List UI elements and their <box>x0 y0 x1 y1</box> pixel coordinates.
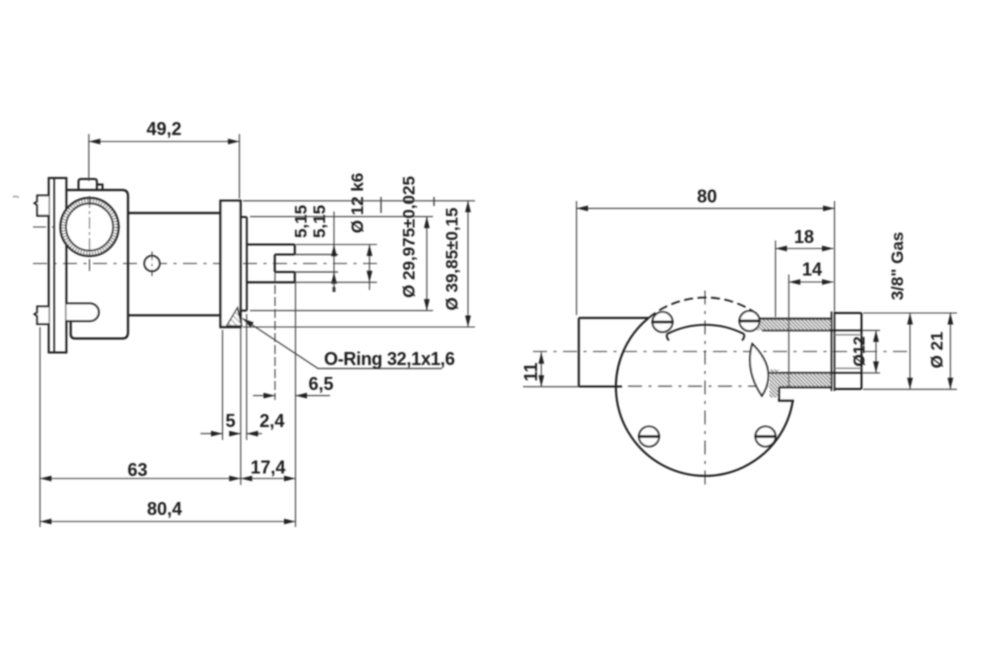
dimension Ø21 <box>949 313 951 389</box>
dimension 5 <box>201 330 241 440</box>
dimension 63 <box>40 327 241 527</box>
svg-text:6,5: 6,5 <box>308 374 333 394</box>
lower left tab <box>35 307 49 325</box>
foot slot in body <box>66 304 98 322</box>
flange horizontal centerline <box>598 385 812 387</box>
stub thread minor lines <box>835 334 862 336</box>
body behind flange <box>579 318 648 387</box>
screw TL <box>652 312 674 332</box>
svg-text:Ø12: Ø12 <box>852 336 869 366</box>
drive shaft <box>247 245 295 283</box>
extension tick A <box>380 197 382 213</box>
flange disc hidden top arc (dashed) <box>648 298 756 319</box>
screw BR <box>755 427 777 447</box>
port bore bottom line <box>764 372 862 374</box>
middle cylinder section <box>128 213 221 315</box>
dimension Ø12 k6 <box>296 245 377 291</box>
flange disc circle <box>616 318 793 476</box>
port top hatched wall <box>757 319 832 331</box>
upper left tab <box>35 196 49 216</box>
port bottom hatched wall <box>770 373 832 387</box>
cover circle outer <box>61 198 119 256</box>
svg-text:11: 11 <box>521 362 541 381</box>
flange vertical centerline <box>704 291 706 487</box>
shaft key <box>275 255 295 273</box>
port top outer line <box>759 318 833 320</box>
svg-text:49,2: 49,2 <box>146 119 181 139</box>
small hole vertical tick <box>151 252 153 277</box>
O-ring groove marker triangle <box>227 308 242 327</box>
svg-text:Ø 39,85±0,15: Ø 39,85±0,15 <box>443 208 462 311</box>
top lug on body <box>79 179 103 190</box>
svg-text:Ø 12 k6: Ø 12 k6 <box>348 173 367 234</box>
dimension 14 <box>789 275 834 388</box>
spigot (pilot) behind face <box>241 217 247 311</box>
svg-text:17,4: 17,4 <box>250 458 285 478</box>
dimension 2,4 <box>247 314 262 440</box>
svg-text:18: 18 <box>794 227 814 247</box>
port bottom outer line <box>779 386 832 388</box>
svg-text:3/8" Gas: 3/8" Gas <box>888 232 907 301</box>
screw BL <box>638 427 660 447</box>
dimension 17,4 <box>241 282 296 527</box>
pump body block <box>66 190 128 339</box>
dimension 80 <box>577 201 835 315</box>
intersection lens <box>750 344 768 396</box>
dimension 18 <box>776 241 834 318</box>
rear mounting plate <box>49 178 67 353</box>
svg-text:80,4: 80,4 <box>147 499 182 519</box>
svg-text:5: 5 <box>225 411 235 431</box>
port centerline <box>533 351 908 353</box>
port bore top line <box>762 329 862 331</box>
dimension Ø39,85 <box>243 201 475 327</box>
dimension 6,5 <box>253 273 330 400</box>
svg-text:5,15: 5,15 <box>292 205 311 238</box>
dimension 11 <box>523 352 580 386</box>
svg-text:63: 63 <box>127 460 147 480</box>
main horizontal centerline <box>33 263 380 265</box>
notch bottom step <box>779 387 794 401</box>
O-ring leader line <box>243 319 443 369</box>
flange right face lines <box>831 312 833 392</box>
svg-text:14: 14 <box>802 260 822 280</box>
dimension Ø12 port bore <box>862 330 880 373</box>
svg-text:80: 80 <box>697 187 717 207</box>
cover knurled ring <box>63 201 116 254</box>
svg-text:O-Ring 32,1x1,6: O-Ring 32,1x1,6 <box>324 349 455 369</box>
dimension 49,2 <box>89 134 240 199</box>
dimension 3/8 Gas <box>863 313 957 389</box>
front face flange plate <box>221 201 241 327</box>
boss arc <box>667 325 745 341</box>
svg-text:Ø 21: Ø 21 <box>928 332 947 369</box>
screw TR <box>739 311 761 331</box>
small hole in body <box>144 256 159 271</box>
threaded stub <box>835 313 862 389</box>
dimension 5,15 5,15 <box>333 212 335 293</box>
cover crosshair vertical <box>89 196 91 273</box>
svg-text:5,15: 5,15 <box>310 205 329 238</box>
extension tick B <box>433 197 435 206</box>
svg-text:Ø 29,975±0,025: Ø 29,975±0,025 <box>400 176 419 298</box>
upper port centerline through cover circle <box>33 226 120 228</box>
svg-text:2,4: 2,4 <box>259 411 284 431</box>
dimension 80,4 <box>40 521 296 523</box>
scan artifact speck <box>13 196 19 197</box>
key line extensions for 5,15 dims <box>295 255 338 273</box>
dimension Ø29,975 <box>250 217 433 311</box>
port left hatched chunk <box>770 370 780 398</box>
cover circle inner <box>66 204 113 251</box>
